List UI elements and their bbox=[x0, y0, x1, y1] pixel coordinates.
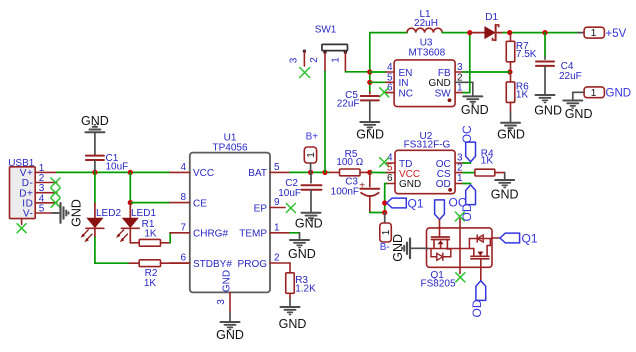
svg-text:STDBY#: STDBY# bbox=[193, 259, 232, 270]
wire C3 to B- bbox=[370, 212, 385, 214]
svg-text:GND: GND bbox=[399, 179, 421, 190]
svg-text:1: 1 bbox=[331, 57, 342, 63]
connector USB1 body bbox=[8, 158, 35, 219]
svg-text:1: 1 bbox=[274, 222, 280, 233]
junction at IN bbox=[367, 80, 372, 85]
U2 pin 3 OC bbox=[436, 153, 463, 170]
junction at Q1 flag bbox=[382, 200, 387, 205]
capacitor C1 bbox=[86, 153, 128, 173]
U3 pin 3 FB bbox=[438, 62, 463, 79]
U1 pin 6 STDBY# bbox=[170, 253, 232, 270]
no-connect X SW1 pin 3 bbox=[300, 68, 310, 78]
svg-text:10uF: 10uF bbox=[106, 162, 129, 173]
no-connect X U2 TD bbox=[380, 158, 389, 167]
svg-text:OC: OC bbox=[460, 125, 474, 143]
svg-text:22uH: 22uH bbox=[414, 18, 438, 29]
wire R7 to R6 bbox=[510, 62, 512, 72]
LED D1 LED1 bbox=[116, 203, 156, 243]
svg-text:GND: GND bbox=[534, 104, 562, 118]
svg-text:Q1: Q1 bbox=[522, 231, 538, 245]
svg-text:1K: 1K bbox=[144, 278, 157, 289]
svg-text:22uF: 22uF bbox=[559, 71, 582, 82]
wire OC to flag bbox=[463, 162, 471, 164]
ground at TEMP bbox=[288, 233, 316, 261]
U2 pin 1 OD bbox=[436, 173, 463, 190]
ground at GND connector bbox=[563, 101, 592, 122]
svg-text:1K: 1K bbox=[516, 90, 529, 101]
no-connect X USB1 pin 3 bbox=[51, 188, 60, 197]
ground at USB1 pin 5 bbox=[52, 199, 84, 227]
svg-text:LED2: LED2 bbox=[96, 208, 121, 219]
ground below R6 bbox=[497, 102, 525, 141]
no-connect X U3 NC bbox=[380, 88, 389, 97]
svg-text:1: 1 bbox=[591, 88, 597, 99]
svg-text:CE: CE bbox=[193, 198, 207, 209]
wire R1 to CHRG# bbox=[169, 233, 171, 243]
svg-text:GND: GND bbox=[70, 199, 84, 227]
svg-text:B-: B- bbox=[380, 242, 390, 253]
wire R5 to U2 VCC bbox=[370, 171, 387, 173]
junction at SW/R5 bbox=[322, 170, 327, 175]
connector +5V bbox=[578, 27, 627, 40]
wire USB1 V+ to U1 VCC bbox=[57, 171, 170, 173]
svg-text:1: 1 bbox=[457, 83, 463, 94]
svg-text:1: 1 bbox=[306, 152, 317, 158]
svg-text:EP: EP bbox=[254, 203, 268, 214]
svg-text:GND: GND bbox=[497, 127, 525, 141]
junction at B+ bbox=[308, 170, 313, 175]
svg-text:PROG: PROG bbox=[238, 259, 268, 270]
junction at LED1/CE branch bbox=[128, 170, 133, 175]
junction at CE bbox=[128, 200, 133, 205]
svg-text:GND: GND bbox=[221, 270, 232, 292]
svg-text:B+: B+ bbox=[306, 131, 319, 142]
wire VCC to LED1 bbox=[129, 172, 131, 202]
U2 pin 5 VCC bbox=[387, 162, 421, 180]
svg-text:10uF: 10uF bbox=[278, 188, 301, 199]
Q1 bottom pin OD flag bbox=[470, 267, 486, 317]
resistor R4 bbox=[475, 148, 505, 176]
resistor R1 bbox=[130, 219, 170, 246]
USB1 pin 4 ID bbox=[22, 193, 57, 209]
svg-text:2: 2 bbox=[309, 57, 320, 63]
svg-text:Q1: Q1 bbox=[408, 196, 424, 210]
svg-text:1: 1 bbox=[457, 173, 463, 184]
junction at FB divider bbox=[507, 69, 512, 74]
wire LED2 to R2 bbox=[95, 238, 129, 264]
svg-text:GND: GND bbox=[565, 107, 593, 121]
svg-text:SW: SW bbox=[435, 88, 452, 99]
Q1 pin to net flag Q1 bbox=[492, 231, 538, 245]
svg-text:100 Ω: 100 Ω bbox=[336, 157, 363, 168]
net flag OD down bbox=[460, 185, 476, 222]
wire VCC to LED2 bbox=[94, 172, 96, 203]
capacitor C2 bbox=[278, 172, 321, 212]
wire EN/IN vertical bbox=[369, 33, 371, 92]
wire BAT bbox=[290, 171, 330, 173]
wire CE to U1 bbox=[130, 202, 170, 204]
svg-text:7.5K: 7.5K bbox=[516, 49, 537, 60]
U1 pin 8 CE bbox=[170, 192, 207, 209]
transistor Q1 FS8205 body bbox=[421, 228, 493, 290]
SW1 pin 1 bbox=[331, 52, 346, 72]
ground below C5 bbox=[356, 122, 384, 142]
junction at B- bbox=[382, 210, 387, 215]
svg-text:1K: 1K bbox=[144, 228, 157, 239]
diode D1 bbox=[470, 12, 505, 40]
inductor L1 bbox=[407, 9, 442, 32]
U1 pin 7 CHRG# bbox=[170, 222, 228, 239]
USB1 pin 2 D- bbox=[22, 173, 57, 189]
junction at R7 bbox=[507, 30, 512, 35]
svg-text:NC: NC bbox=[399, 88, 413, 99]
net flag OC up bbox=[460, 125, 476, 162]
capacitor C5 bbox=[337, 90, 379, 122]
wire FB bbox=[463, 71, 510, 73]
junction at C4 bbox=[542, 30, 547, 35]
svg-text:GND: GND bbox=[288, 247, 316, 261]
ic U2 FS312F-G body bbox=[395, 131, 455, 194]
U1 pin 4 VCC bbox=[170, 162, 214, 179]
svg-text:GND: GND bbox=[606, 88, 632, 100]
svg-text:+: + bbox=[359, 181, 365, 192]
resistor R2 bbox=[129, 260, 190, 289]
svg-text:OD: OD bbox=[470, 299, 484, 317]
svg-text:GND: GND bbox=[81, 114, 109, 128]
U2 pin 6 GND bbox=[387, 173, 422, 190]
svg-text:5: 5 bbox=[387, 162, 393, 173]
svg-text:OC: OC bbox=[449, 196, 467, 210]
regulator U3 MT3608 body bbox=[394, 38, 455, 107]
svg-text:OD: OD bbox=[436, 179, 451, 190]
svg-text:4: 4 bbox=[180, 162, 186, 173]
capacitor C3 bbox=[331, 172, 380, 212]
U3 pin 5 IN bbox=[386, 72, 409, 89]
connector B+ bbox=[304, 131, 318, 172]
U3 pin 6 NC bbox=[386, 83, 413, 100]
U1 pin 2 PROG bbox=[238, 253, 290, 270]
resistor R3 bbox=[286, 263, 316, 295]
no-connect X Q1 top bbox=[455, 212, 464, 221]
svg-text:MT3608: MT3608 bbox=[408, 48, 445, 59]
svg-text:+5V: +5V bbox=[606, 28, 627, 40]
U3 pin 1 SW bbox=[435, 83, 463, 100]
wire EN bbox=[370, 71, 386, 73]
U2 pin 4 TD bbox=[387, 153, 413, 170]
wire to L1 bbox=[370, 32, 407, 34]
resistor R6 bbox=[506, 72, 529, 102]
junction at D1 anode bbox=[467, 30, 472, 35]
ground below R3 bbox=[279, 293, 307, 331]
svg-text:22uF: 22uF bbox=[337, 98, 360, 109]
svg-text:6: 6 bbox=[387, 173, 393, 184]
wire SW pin to L1 node bbox=[463, 33, 470, 93]
svg-text:V-: V- bbox=[23, 209, 34, 220]
ground at Q1 source bbox=[391, 234, 428, 262]
svg-text:BAT: BAT bbox=[248, 168, 267, 179]
wire U2 GND to B- node bbox=[385, 184, 387, 213]
no-connect X Q1 bottom bbox=[456, 267, 465, 282]
ground below C2 bbox=[295, 213, 323, 231]
ground below C4 bbox=[534, 95, 562, 118]
junction at C1 bbox=[92, 170, 97, 175]
svg-text:GND: GND bbox=[491, 188, 519, 202]
svg-text:GND: GND bbox=[461, 103, 489, 117]
svg-text:1K: 1K bbox=[481, 155, 494, 166]
svg-text:100nF: 100nF bbox=[331, 186, 359, 197]
Q1 internal mosfet B bbox=[469, 235, 492, 267]
svg-text:1.2K: 1.2K bbox=[295, 284, 316, 295]
connector B- bbox=[380, 213, 392, 254]
wire CS to R4 bbox=[463, 172, 475, 174]
switch SW1 bbox=[303, 25, 348, 54]
USB1 pin 1 V+ bbox=[20, 163, 57, 179]
ground below R4 bbox=[491, 173, 519, 202]
svg-text:3: 3 bbox=[216, 299, 227, 305]
svg-text:SW1: SW1 bbox=[315, 25, 337, 36]
svg-text:3: 3 bbox=[289, 57, 300, 63]
svg-text:8: 8 bbox=[180, 192, 186, 203]
no-connect X USB1 pin 2 bbox=[51, 178, 60, 187]
wire OC flag to gate bbox=[439, 220, 441, 228]
U2 pin 2 CS bbox=[437, 162, 463, 180]
svg-text:LED1: LED1 bbox=[131, 208, 156, 219]
wire IN bbox=[370, 81, 386, 83]
svg-text:FS8205: FS8205 bbox=[421, 279, 456, 290]
no-connect X U1 EP bbox=[286, 204, 295, 213]
ground above C1 bbox=[81, 114, 109, 155]
svg-text:VCC: VCC bbox=[193, 168, 214, 179]
capacitor C4 bbox=[536, 33, 582, 95]
wire D1 to output bbox=[503, 32, 578, 34]
USB1 pin 3 D+ bbox=[19, 183, 57, 199]
op-amp U1 TP4056 body bbox=[190, 133, 270, 293]
svg-text:5: 5 bbox=[274, 162, 280, 173]
svg-text:1: 1 bbox=[591, 28, 597, 39]
svg-text:GND: GND bbox=[295, 217, 323, 231]
svg-text:GND: GND bbox=[356, 128, 384, 142]
U1 pin 9 EP bbox=[254, 197, 285, 214]
svg-text:CHRG#: CHRG# bbox=[193, 229, 228, 240]
resistor R5 bbox=[330, 149, 370, 176]
junction at R5/C3 bbox=[367, 170, 372, 175]
svg-text:2: 2 bbox=[457, 162, 463, 173]
resistor R7 bbox=[506, 33, 537, 62]
svg-text:5: 5 bbox=[39, 204, 45, 215]
svg-text:7: 7 bbox=[180, 222, 186, 233]
svg-text:D1: D1 bbox=[485, 12, 498, 23]
wire SW1 pin1 to EN bbox=[345, 71, 369, 73]
U1 pin 3 GND bbox=[216, 270, 232, 312]
USB1 pin 5 V- bbox=[23, 204, 57, 220]
U3 pin 4 EN bbox=[386, 62, 412, 79]
net flag Q1 at U2 bbox=[387, 196, 424, 210]
U1 pin 5 BAT bbox=[248, 162, 290, 179]
junction at EN bbox=[367, 69, 372, 74]
SW1 pin 3 bbox=[289, 51, 305, 66]
U3 pin 2 GND bbox=[428, 72, 463, 89]
svg-text:GND: GND bbox=[279, 317, 307, 331]
svg-text:GND: GND bbox=[216, 328, 244, 342]
svg-text:6: 6 bbox=[180, 253, 186, 264]
LED D2 LED2 bbox=[81, 203, 122, 242]
no-connect X USB1 shield bbox=[17, 224, 26, 233]
USB1 shield pin bbox=[21, 219, 23, 225]
U1 pin 1 TEMP bbox=[239, 222, 290, 239]
svg-text:2: 2 bbox=[274, 253, 280, 264]
ground at U3 GND pin bbox=[461, 82, 489, 117]
Q1 internal mosfet A bbox=[428, 219, 474, 268]
net flag OC at Q1 gate bbox=[435, 196, 467, 220]
ground below U1 bbox=[216, 312, 244, 342]
SW1 pin 2 bbox=[309, 52, 325, 71]
no-connect X USB1 pin 4 bbox=[51, 198, 60, 207]
connector GND output bbox=[573, 87, 631, 100]
svg-text:TP4056: TP4056 bbox=[212, 142, 247, 153]
wire SW1 pin2 to BAT bbox=[324, 72, 326, 173]
svg-text:TEMP: TEMP bbox=[239, 229, 267, 240]
wire L1 to D1 bbox=[442, 32, 470, 34]
wire OD to flag bbox=[463, 183, 471, 185]
svg-text:FS312F-G: FS312F-G bbox=[404, 139, 451, 150]
